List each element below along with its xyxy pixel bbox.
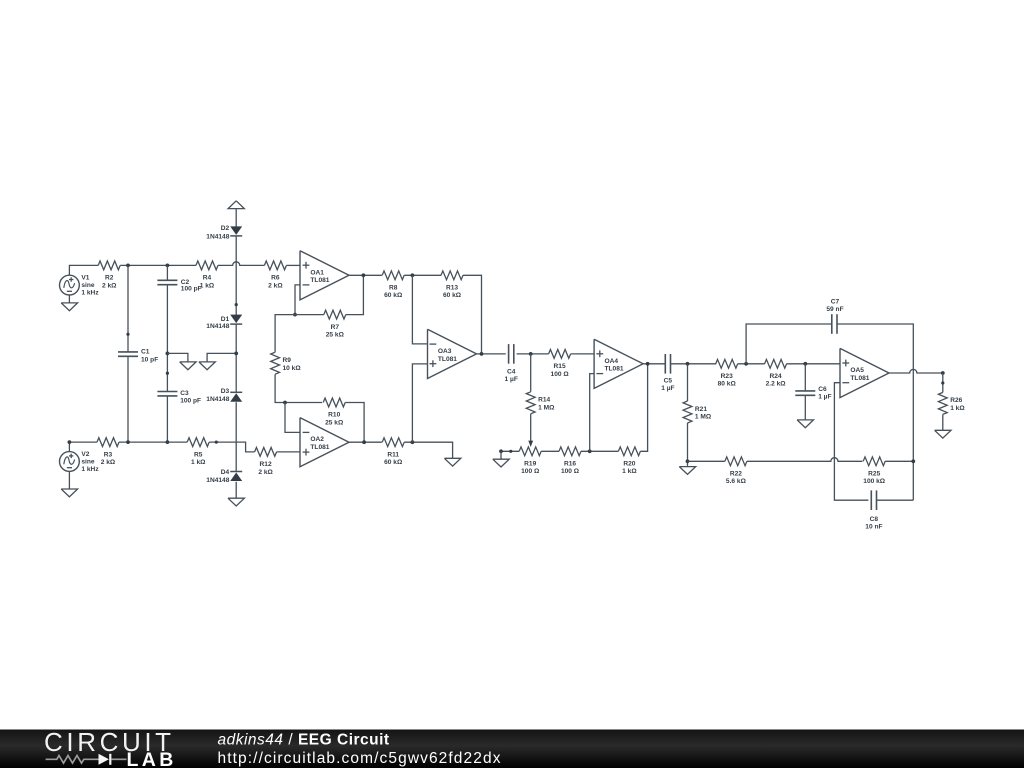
svg-text:80 kΩ: 80 kΩ — [718, 381, 737, 388]
resistor R23 80k — [716, 359, 738, 368]
wire D2 to D1 crossing top rail — [235, 236, 237, 315]
svg-text:2 kΩ: 2 kΩ — [101, 459, 116, 466]
ground below R26 — [935, 430, 951, 438]
capacitor C4 1uF — [508, 344, 510, 364]
svg-text:1 µF: 1 µF — [661, 385, 674, 392]
diode D2 1N4148 — [231, 227, 242, 235]
voltage source V2 sine 1 kHz — [60, 452, 80, 472]
capacitor C8 10nF — [870, 490, 872, 510]
wire C1 branch lower — [127, 356, 129, 442]
op-amp OA5 TL081 — [840, 348, 889, 397]
node R14 top — [529, 352, 533, 356]
wire C8 right — [877, 499, 914, 501]
wire C6 upper — [804, 364, 806, 391]
svg-text:R6: R6 — [271, 275, 280, 282]
svg-text:C6: C6 — [818, 386, 827, 393]
svg-text:R15: R15 — [554, 363, 566, 370]
wire V2 to bottom rail — [69, 442, 97, 452]
wire OA2- up — [285, 403, 300, 433]
svg-text:100 pF: 100 pF — [180, 398, 201, 405]
wire OA1 output — [349, 274, 382, 276]
diode D1 1N4148 — [231, 315, 242, 323]
wire R11 right to ground — [404, 442, 452, 458]
wire R14 lower with wiper arrow — [530, 414, 532, 441]
svg-text:R11: R11 — [387, 451, 399, 458]
wire C4 to R15 — [517, 353, 549, 355]
svg-text:R5: R5 — [194, 451, 203, 458]
svg-text:10 pF: 10 pF — [141, 357, 158, 364]
svg-text:2 kΩ: 2 kΩ — [268, 282, 283, 289]
wire R22 to R25 with hop — [747, 458, 863, 462]
node C2 top — [166, 264, 170, 268]
resistor R13 60k — [441, 271, 463, 280]
ground stub from C2C3 node — [167, 353, 188, 362]
svg-text:C3: C3 — [180, 390, 189, 397]
svg-text:adkins44 / EEG Circuit: adkins44 / EEG Circuit — [218, 731, 390, 748]
wire R24 to OA5+ — [787, 363, 840, 365]
resistor R5 1k — [187, 438, 209, 447]
wire D1 to ground tee node — [235, 324, 237, 392]
wire V1 to top rail — [69, 265, 98, 275]
svg-text:C5: C5 — [664, 377, 673, 384]
svg-text:TL081: TL081 — [310, 277, 329, 284]
resistor R24 2.2k — [765, 359, 787, 368]
resistor R9 10k vertical — [271, 352, 280, 374]
wire R10 right down to OA2 out — [345, 403, 364, 443]
wire C6 to ground — [804, 395, 806, 420]
svg-text:100 pF: 100 pF — [181, 285, 202, 292]
ground at R19 — [500, 451, 502, 459]
svg-text:60 kΩ: 60 kΩ — [443, 292, 462, 299]
node OA2 out — [362, 440, 366, 444]
svg-text:C1: C1 — [141, 349, 150, 356]
capacitor C1 10pF — [118, 351, 138, 353]
svg-text:R12: R12 — [260, 461, 272, 468]
svg-text:TL081: TL081 — [310, 444, 329, 451]
resistor R2 2k — [98, 261, 120, 270]
node OA2- tee — [283, 401, 287, 405]
wire R16 to R20 — [581, 450, 618, 452]
wire OA5- down left vertical — [834, 383, 868, 501]
svg-text:100 Ω: 100 Ω — [521, 468, 540, 475]
svg-text:R16: R16 — [564, 461, 576, 468]
wire R19 to R16 — [541, 450, 559, 452]
node output — [941, 371, 945, 375]
wire R21 upper — [687, 364, 689, 401]
wire R4 to R6, hop over diode chain — [218, 262, 264, 266]
resistor R3 2k — [97, 438, 119, 447]
resistor R16 100 — [559, 447, 581, 456]
ground below R21 — [679, 467, 695, 475]
ground below V1 — [68, 295, 70, 303]
ground stub from diode chain node — [207, 353, 236, 362]
wire OA3+ down to R11 node — [412, 364, 427, 442]
svg-text:R26: R26 — [950, 397, 962, 404]
svg-text:R10: R10 — [328, 412, 340, 419]
node segment join C1 — [126, 333, 129, 336]
resistor R7 25k — [324, 310, 346, 319]
svg-text:sine: sine — [81, 282, 95, 289]
node R7 left — [293, 313, 297, 317]
svg-text:TL081: TL081 — [850, 375, 869, 382]
capacitor C2 100pF — [157, 279, 177, 281]
node OA3 out — [480, 352, 484, 356]
wire R15 to OA4+ — [571, 353, 595, 355]
resistor R6 2k — [264, 261, 286, 270]
svg-text:1 kHz: 1 kHz — [81, 290, 99, 297]
node R21 top — [686, 362, 690, 366]
node diode chain mid — [234, 352, 238, 356]
node C1 top — [126, 264, 130, 268]
svg-text:60 kΩ: 60 kΩ — [384, 292, 403, 299]
resistor R11 60k — [382, 438, 404, 447]
capacitor C3 100pF — [157, 391, 177, 393]
svg-text:OA2: OA2 — [310, 436, 324, 443]
wire C2 upper — [166, 265, 168, 280]
svg-text:R22: R22 — [730, 471, 742, 478]
svg-text:1N4148: 1N4148 — [206, 396, 229, 403]
svg-text:100 Ω: 100 Ω — [561, 468, 580, 475]
wire C5 to R23 — [671, 363, 717, 365]
svg-text:D4: D4 — [221, 469, 230, 476]
wire R21 lower — [687, 423, 689, 467]
wire R25 right — [885, 460, 913, 462]
svg-text:10 kΩ: 10 kΩ — [283, 365, 302, 372]
node R25 right — [911, 459, 915, 463]
node R11 right — [411, 440, 415, 444]
svg-text:OA4: OA4 — [605, 358, 619, 365]
wire R20 right up to OA4 out — [640, 364, 647, 452]
resistor R22 5.6k — [725, 457, 747, 466]
svg-text:1N4148: 1N4148 — [206, 323, 229, 330]
svg-text:1 kΩ: 1 kΩ — [622, 468, 637, 475]
node segment join C2C3 — [166, 372, 169, 375]
resistor R4 1k — [196, 261, 218, 270]
node mid ground tee — [166, 352, 170, 356]
svg-text:1 kΩ: 1 kΩ — [191, 459, 206, 466]
wire OA4 output to C5 — [643, 363, 665, 365]
wire C3 to bottom rail — [166, 396, 168, 442]
wire node down to OA3- — [412, 275, 427, 344]
wire R13 right down to OA3 out — [463, 275, 482, 354]
wire R21 node to R22 — [688, 460, 725, 462]
node C7 branch — [744, 362, 748, 366]
svg-text:R13: R13 — [446, 285, 458, 292]
potentiometer R19 100 — [519, 447, 541, 456]
node segment join after R5 — [215, 441, 218, 444]
svg-text:R8: R8 — [389, 285, 398, 292]
node C6 top — [803, 362, 807, 366]
op-amp OA1 TL081 — [300, 251, 349, 300]
capacitor C6 1uF — [795, 390, 815, 392]
svg-text:25 kΩ: 25 kΩ — [326, 332, 345, 339]
svg-text:R21: R21 — [695, 406, 707, 413]
svg-text:1 MΩ: 1 MΩ — [695, 414, 712, 421]
svg-text:1 kΩ: 1 kΩ — [950, 405, 965, 412]
resistor R21 1M vertical — [683, 401, 692, 423]
wire R5 to R12 jog — [209, 442, 254, 452]
wire R12 to OA2+ — [277, 451, 300, 453]
diode D4 1N4148 — [231, 473, 242, 481]
resistor R8 60k — [382, 271, 404, 280]
resistor R20 1k — [618, 447, 640, 456]
svg-text:R23: R23 — [721, 373, 733, 380]
svg-text:C7: C7 — [831, 298, 840, 305]
ground after R11 — [444, 458, 460, 466]
wire R8 to R13 — [404, 274, 441, 276]
wire D3 to D4 crossing bottom rail — [235, 402, 237, 471]
svg-text:100 kΩ: 100 kΩ — [863, 478, 886, 485]
svg-text:1N4148: 1N4148 — [206, 233, 229, 240]
svg-text:2.2 kΩ: 2.2 kΩ — [766, 381, 787, 388]
svg-text:R4: R4 — [203, 275, 212, 282]
svg-text:D3: D3 — [221, 388, 230, 395]
svg-text:1N4148: 1N4148 — [206, 477, 229, 484]
svg-text:59 nF: 59 nF — [826, 306, 843, 313]
node R21 bottom tee — [686, 459, 690, 463]
wire output down to R26 — [942, 373, 944, 392]
svg-text:R3: R3 — [104, 451, 113, 458]
wire OA1- feedback down — [295, 285, 300, 315]
svg-text:R7: R7 — [331, 324, 340, 331]
resistor R26 1k vertical — [938, 392, 947, 414]
node OA4- tee — [588, 449, 592, 453]
node segment join R26 top — [941, 381, 944, 384]
svg-text:100 Ω: 100 Ω — [551, 371, 570, 378]
diode D3 1N4148 — [231, 394, 242, 402]
svg-text:5.6 kΩ: 5.6 kΩ — [726, 478, 747, 485]
svg-text:R20: R20 — [623, 461, 635, 468]
svg-text:R14: R14 — [538, 397, 550, 404]
svg-text:V2: V2 — [81, 451, 89, 458]
svg-text:TL081: TL081 — [438, 356, 457, 363]
svg-text:2 kΩ: 2 kΩ — [102, 282, 117, 289]
svg-text:2 kΩ: 2 kΩ — [258, 469, 273, 476]
resistor R14 1M vertical — [526, 392, 535, 414]
node ground tee R19 — [499, 449, 503, 453]
svg-text:1 MΩ: 1 MΩ — [538, 404, 555, 411]
svg-text:LAB: LAB — [127, 749, 177, 768]
svg-text:OA5: OA5 — [850, 367, 864, 374]
svg-text:D2: D2 — [221, 225, 230, 232]
svg-text:R19: R19 — [524, 461, 536, 468]
wire OA2 output — [349, 441, 382, 443]
node OA4 out — [646, 362, 650, 366]
svg-text:R24: R24 — [770, 373, 782, 380]
node R8 right — [411, 273, 415, 277]
op-amp OA3 TL081 — [428, 329, 477, 378]
svg-text:C4: C4 — [507, 368, 516, 375]
logo resistor-diode glyph — [46, 756, 99, 764]
ground below D4 — [228, 498, 244, 506]
wire R6 to OA1+ — [286, 264, 300, 266]
ground below C6 — [797, 420, 813, 428]
wire D4 to ground — [235, 482, 237, 498]
ground below V2 — [68, 471, 70, 489]
wire R9 to R10 line — [275, 374, 322, 402]
svg-text:OA1: OA1 — [310, 269, 324, 276]
svg-text:1 µF: 1 µF — [818, 394, 831, 401]
op-amp OA2 TL081 — [300, 418, 349, 467]
node C3 bottom — [166, 440, 170, 444]
svg-text:R9: R9 — [283, 357, 292, 364]
wire C7 right and down right vertical — [837, 324, 913, 500]
resistor R25 100k — [863, 457, 885, 466]
node segment join R19 left — [509, 450, 512, 453]
op-amp OA4 TL081 — [594, 339, 643, 388]
wire R26 to ground — [942, 414, 944, 430]
resistor R10 25k — [323, 398, 345, 407]
wire OA3 output to C4 — [477, 353, 506, 355]
wire R14 upper — [530, 354, 532, 392]
wire up to C7 rail — [746, 324, 832, 364]
capacitor C7 59nF — [831, 314, 833, 334]
resistor R12 2k — [255, 448, 277, 457]
node segment join above D1 — [235, 303, 238, 306]
resistor R15 100 — [549, 350, 571, 359]
svg-text:60 kΩ: 60 kΩ — [384, 459, 403, 466]
svg-text:1 kHz: 1 kHz — [81, 466, 99, 473]
ground B — [199, 362, 215, 370]
wire R23 to R24 — [738, 363, 765, 365]
svg-text:V1: V1 — [81, 275, 89, 282]
VCC supply arrow — [228, 201, 244, 209]
wire C1 branch upper — [127, 265, 129, 352]
ground A — [180, 362, 196, 370]
svg-text:http://circuitlab.com/c5gwv62f: http://circuitlab.com/c5gwv62fd22dx — [218, 750, 502, 767]
svg-text:25 kΩ: 25 kΩ — [325, 419, 344, 426]
wire OA4- down — [590, 374, 594, 452]
svg-text:sine: sine — [81, 459, 95, 466]
svg-text:1 µF: 1 µF — [505, 376, 518, 383]
svg-text:10 nF: 10 nF — [865, 524, 882, 531]
node V2-rail — [68, 440, 72, 444]
capacitor C5 1uF — [664, 354, 666, 374]
svg-text:TL081: TL081 — [605, 366, 624, 373]
wire R7 line left to R9 — [275, 315, 324, 353]
wire C2 to C3 — [166, 285, 168, 392]
wire R7 right to OA1 output — [346, 275, 364, 314]
wire R19 left to ground — [501, 450, 519, 452]
node C1 bottom — [126, 440, 130, 444]
wire R2 to R4 with junctions — [120, 264, 196, 266]
svg-text:R2: R2 — [105, 275, 114, 282]
wire R3 to R5 — [119, 441, 187, 443]
svg-text:1 kΩ: 1 kΩ — [200, 282, 215, 289]
node OA1 out — [362, 273, 366, 277]
voltage source V1 sine 1 kHz — [60, 275, 80, 295]
svg-text:C8: C8 — [870, 516, 879, 523]
wire OA5 output with hop — [889, 369, 943, 373]
wire VCC to D2 — [235, 209, 237, 227]
svg-text:OA3: OA3 — [438, 348, 452, 355]
svg-text:R25: R25 — [868, 471, 880, 478]
